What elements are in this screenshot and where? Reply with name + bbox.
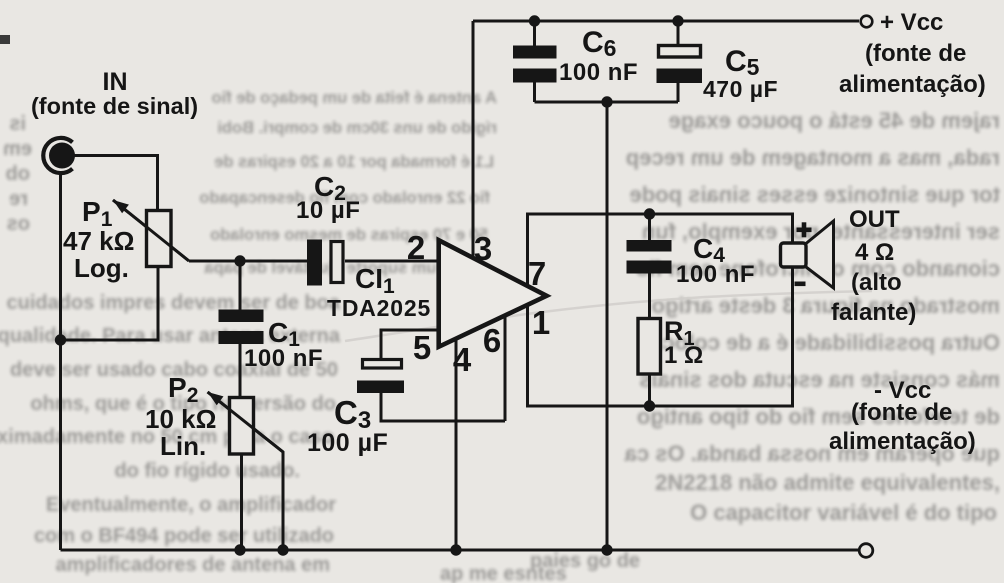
wire C6 bottom lead xyxy=(533,81,536,102)
wire pin 4 drop xyxy=(455,337,458,550)
svg-text:4: 4 xyxy=(453,341,472,378)
svg-text:alimentação): alimentação) xyxy=(829,428,976,455)
svg-text:alimentação): alimentação) xyxy=(839,71,986,98)
svg-text:4 Ω: 4 Ω xyxy=(855,239,894,266)
svg-text:re: re xyxy=(9,188,28,210)
capacitor C1 xyxy=(219,310,264,345)
wire pin 6 drop xyxy=(504,314,507,421)
svg-text:IN: IN xyxy=(103,68,128,96)
wire signal node to C2 xyxy=(189,260,308,263)
wire C3 bottom lead xyxy=(381,392,505,421)
svg-text:Log.: Log. xyxy=(74,253,129,283)
svg-text:tor que sintonize esses sinais: tor que sintonize esses sinais pode xyxy=(630,182,1000,207)
svg-text:50 e 70 espiras de mesmo enrol: 50 e 70 espiras de mesmo enrolado xyxy=(210,226,488,244)
svg-text:rada, mas a montagem de um rec: rada, mas a montagem de um recep xyxy=(626,145,1000,170)
wire C3 top lead to pin 5 xyxy=(381,330,440,359)
svg-text:1 Ω: 1 Ω xyxy=(664,342,703,369)
svg-text:do fio rígido usado.: do fio rígido usado. xyxy=(114,460,300,482)
input jack J1 xyxy=(43,138,75,173)
svg-text:5: 5 xyxy=(413,329,431,366)
capacitor C2 xyxy=(307,240,343,286)
wire C4 to R1 xyxy=(648,273,651,319)
wire output box xyxy=(528,214,793,406)
wire P1 bottom to ground rail xyxy=(61,266,159,340)
wire jack output to P1 top xyxy=(74,156,158,212)
speaker minus mark xyxy=(795,282,806,287)
wire C1 bottom lead to P2 xyxy=(239,344,242,398)
terminal +Vcc xyxy=(861,16,873,28)
capacitor C3 xyxy=(357,360,404,394)
wire bottom rail xyxy=(61,549,859,552)
resistor R1 xyxy=(638,319,661,375)
svg-text:OUT: OUT xyxy=(849,206,900,233)
svg-text:más consiste na escuta dos sin: más consiste na escuta dos sinais xyxy=(639,367,1000,392)
wire P2 wiper to bottom rail xyxy=(208,392,283,550)
svg-text:2N2218 não admite equivalentes: 2N2218 não admite equivalentes, xyxy=(655,470,1000,495)
svg-text:+ Vcc: + Vcc xyxy=(880,9,943,36)
svg-text:falante): falante) xyxy=(831,299,916,326)
op-amp CI1 triangle xyxy=(439,240,547,347)
wire top supply rail xyxy=(473,20,859,23)
svg-text:(fonte de: (fonte de xyxy=(851,399,952,426)
wire P1 wiper diagonal xyxy=(113,200,189,261)
svg-text:ap me esntes: ap me esntes xyxy=(440,563,567,583)
svg-text:2: 2 xyxy=(407,229,425,266)
svg-text:com o BF494 pode ser utilizado: com o BF494 pode ser utilizado xyxy=(34,525,334,547)
svg-text:10 µF: 10 µF xyxy=(296,197,360,224)
svg-text:6: 6 xyxy=(483,322,501,359)
svg-text:TDA2025: TDA2025 xyxy=(327,295,431,321)
wire P2 bottom lead xyxy=(240,453,243,550)
wire C5 bottom lead xyxy=(677,82,680,102)
speaker plus mark xyxy=(797,222,812,237)
svg-text:O capacitor variável é do tipo: O capacitor variável é do tipo xyxy=(690,500,997,525)
svg-text:rajem de 45 está o pouco exage: rajem de 45 está o pouco exage xyxy=(669,108,1000,133)
svg-text:10 kΩ: 10 kΩ xyxy=(145,404,216,434)
svg-text:amplificadores de antena em: amplificadores de antena em xyxy=(55,554,330,576)
svg-text:47 kΩ: 47 kΩ xyxy=(63,226,134,256)
svg-text:A antena é feita de um pedaço: A antena é feita de um pedaço de fio xyxy=(212,89,497,107)
svg-text:(fonte de sinal): (fonte de sinal) xyxy=(31,93,198,119)
node junction dots xyxy=(55,15,684,555)
svg-text:em: em xyxy=(3,138,32,160)
wire C5 top lead xyxy=(677,21,680,45)
potentiometer P2 xyxy=(208,392,283,454)
svg-text:is: is xyxy=(9,113,26,135)
svg-text:100 nF: 100 nF xyxy=(676,261,755,288)
capacitor C4 xyxy=(627,240,672,274)
svg-text:L1 é formada por 10 a 20 espir: L1 é formada por 10 a 20 espiras de xyxy=(214,153,494,171)
capacitor C5 xyxy=(657,46,703,84)
terminal -Vcc xyxy=(859,544,873,558)
svg-text:7: 7 xyxy=(528,255,546,292)
svg-text:1: 1 xyxy=(532,304,550,341)
svg-text:100 µF: 100 µF xyxy=(307,429,388,457)
wire C1 top lead xyxy=(239,261,242,310)
wire C6-C5 bottom connector xyxy=(535,101,679,104)
svg-text:(alto: (alto xyxy=(851,269,902,296)
svg-text:cuidados impres devem ser de b: cuidados impres devem ser de boa xyxy=(7,292,341,314)
svg-text:rígido de uns 30cm de compri.: rígido de uns 30cm de compri. Bobi xyxy=(217,119,497,137)
svg-text:os: os xyxy=(7,213,30,235)
svg-text:3: 3 xyxy=(474,230,492,267)
svg-text:Lin.: Lin. xyxy=(160,431,206,461)
wire R1 bottom lead xyxy=(648,373,651,406)
wire through line from node to bottom rail xyxy=(606,102,609,550)
svg-text:100 nF: 100 nF xyxy=(559,59,638,86)
svg-text:100 nF: 100 nF xyxy=(244,345,323,372)
wire C6 top lead xyxy=(533,21,536,47)
speaker OUT xyxy=(781,221,834,288)
wire C2 to pin 2 xyxy=(345,260,440,263)
page edge mark xyxy=(0,35,10,44)
svg-text:470 µF: 470 µF xyxy=(703,76,778,102)
wire left drop from top rail to pin 3 xyxy=(472,21,475,259)
capacitor C6 xyxy=(513,46,557,83)
svg-text:ob: ob xyxy=(6,163,30,185)
wire jack ground drop xyxy=(59,172,62,550)
wire C4 top lead xyxy=(648,214,651,241)
potentiometer P1 xyxy=(113,200,189,267)
svg-text:Eventualmente, o amplificador: Eventualmente, o amplificador xyxy=(46,494,336,516)
svg-text:(fonte de: (fonte de xyxy=(865,40,966,67)
